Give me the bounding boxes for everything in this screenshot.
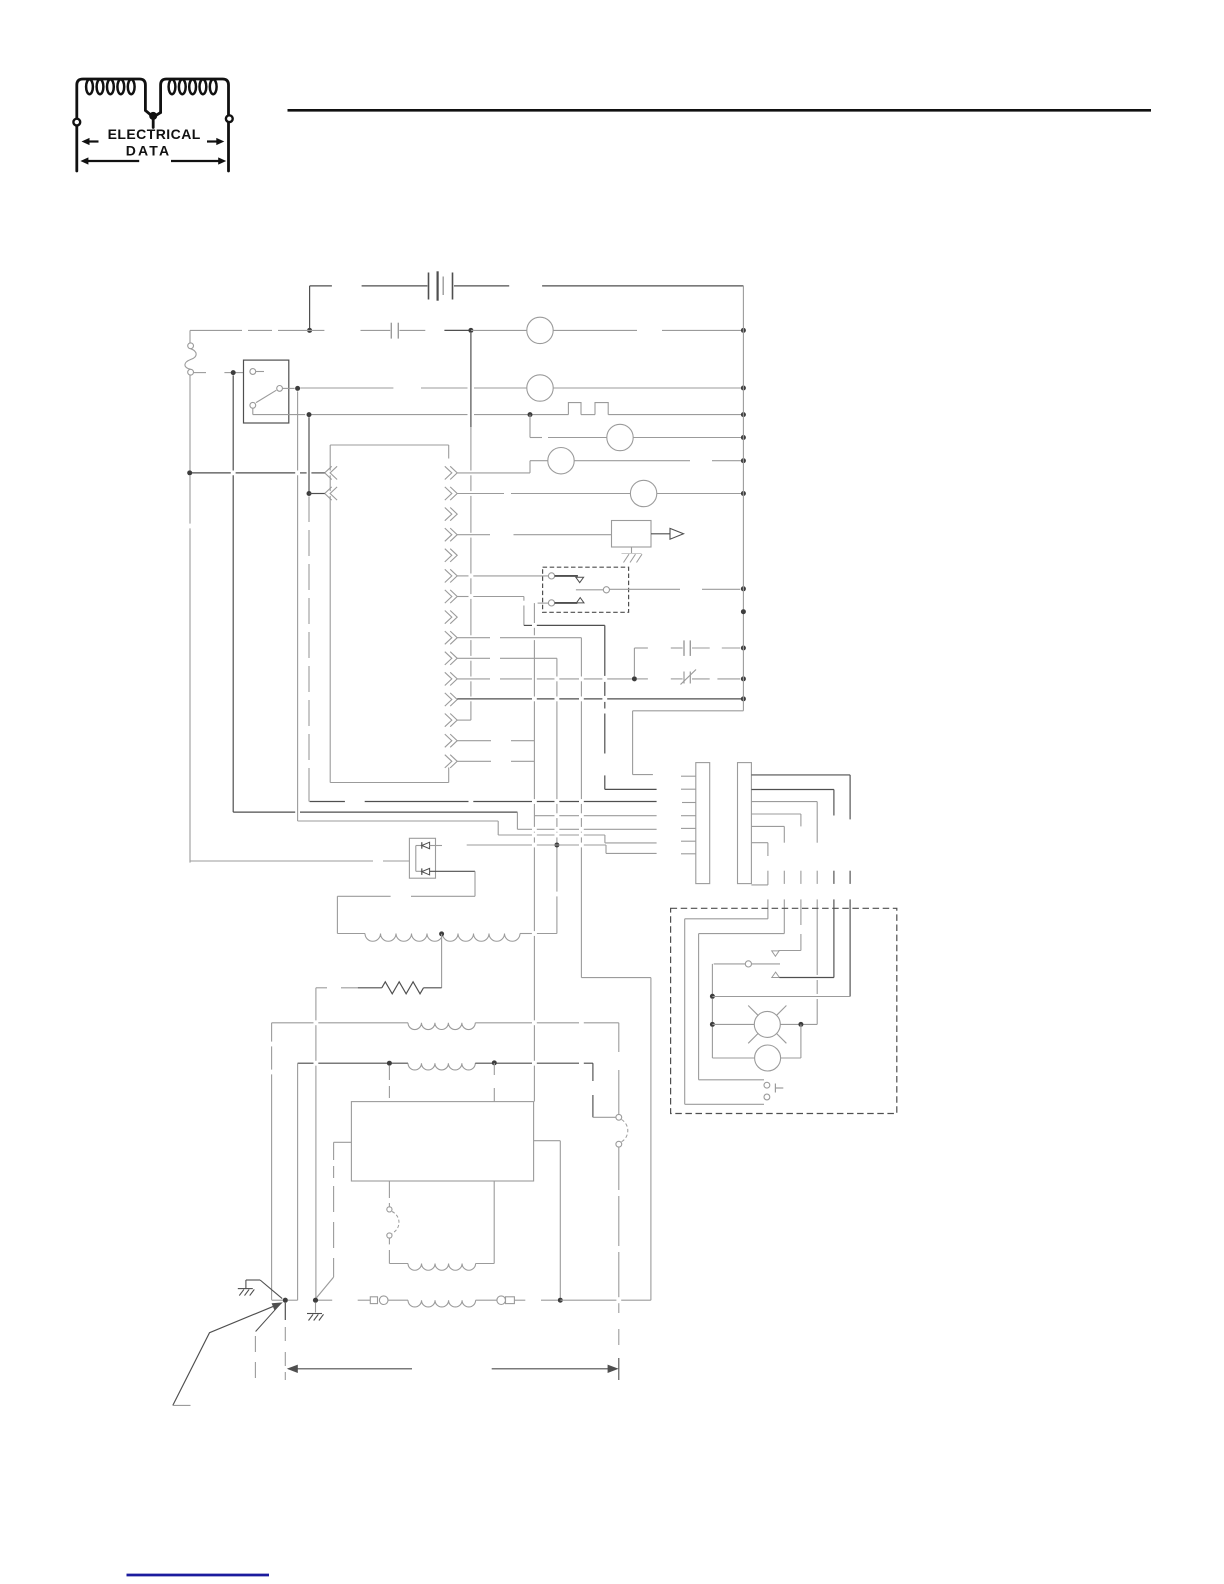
wire V x309 down [308,417,310,491]
pin chevron right y514 [445,508,452,521]
wire x298 lower [297,1063,299,1300]
contact K3 bottom [387,1233,392,1238]
stub815 [681,815,696,817]
leader B ext [254,1336,256,1352]
plug P1 square [370,1297,377,1304]
node bus row700 [741,696,746,701]
wire left drop to fuse [189,330,191,343]
connector J1 right bar [738,763,752,884]
regulator VR1 box [409,838,435,878]
ground GND2 lead [315,1303,317,1313]
wire K3 down [388,1238,390,1244]
coil exciter [337,933,365,935]
node starter right [798,1022,803,1027]
logo generator winding symbol [77,79,229,171]
switch common [603,587,609,593]
wire row1300 right [514,1299,525,1301]
wire row437 right [633,437,741,439]
cap hook [633,648,635,676]
pin chevron left y472 [325,466,332,479]
wire dot1 left [272,1299,283,1301]
wire s2 [751,789,834,791]
node battery/row330 junction [307,328,312,333]
pin chevron right y678 [445,672,452,685]
wire row493 to bus [657,493,741,495]
stub828 [681,827,696,829]
wire row534 solenoid [457,534,490,536]
wire row330 to lamp [471,329,527,331]
wire drop to row330 [309,286,311,331]
wire dot1 drop [284,1303,286,1320]
switch tri down [576,577,584,582]
leader A foot [173,1404,191,1406]
node relay out lower [307,412,312,417]
logo center-tap node [149,112,157,120]
pin chevron right y493 [445,487,452,500]
wire row437 [530,437,542,439]
battery B1 [428,273,430,300]
controller U1 box [330,444,449,446]
wire reg toprow 845 [467,844,532,846]
wire row460 [530,460,548,462]
contact K3 top [387,1207,392,1212]
wire row330 mid [444,329,471,331]
capacitor C2 [683,640,685,656]
wire row720 stub [457,719,471,721]
stub841 [681,840,696,842]
pin chevron right y534 [445,528,452,541]
node bus row588 [741,586,746,591]
solenoid arrow [651,533,670,535]
wire row493 left [309,493,325,495]
stub802 [682,802,696,804]
wire reg bottom lead [430,870,475,872]
wire row761 stub [457,760,491,762]
ground GND1 [238,1288,253,1290]
starter brushes [748,1006,758,1016]
contact tri up2 [772,972,780,977]
wire x713 vertical [711,964,713,994]
wire row472 left [190,472,231,474]
wire switch common to bus [610,588,681,590]
wire dot1 right [288,1299,298,1301]
coil stator2 [408,1063,475,1070]
wire x190 to regulator [190,860,373,862]
coil stator1 [408,1023,475,1030]
relay B lead [283,387,295,389]
dimension line [288,1368,412,1370]
wire row330 left [190,329,242,331]
solenoid SOL1 box [612,521,652,548]
wire row648 to bus [722,647,741,649]
wire rowB 821 [298,820,499,822]
node row1300 x560 [558,1298,563,1303]
node bus row330 [741,328,746,333]
stub789 [681,788,696,790]
node row1063 x389 [387,1061,392,1066]
logo small dimension arrows [86,140,99,142]
node bus row611 [741,609,746,614]
connector J1 left bar [696,763,710,884]
wire row789 [605,788,657,790]
wire x604 vertical [604,625,606,676]
wire switch bottom lead [538,602,549,604]
wire x534 vertical [533,603,535,623]
wire resistor left [316,987,327,989]
wire row330 right [553,329,637,331]
wire reg step [605,845,607,853]
wire x389 below box [388,1181,390,1198]
pin chevron right y740 [445,734,452,747]
logo right terminal [226,115,233,122]
relay C lead [252,408,254,414]
wire row1022 right [475,1022,532,1024]
wire exciter left [336,896,338,933]
pin chevron right y555 [445,549,452,562]
switch S2 actuator [774,1084,776,1093]
svg-text:DATA: DATA [126,143,172,159]
lamp L1 [527,317,553,343]
wire jog 414-437 [529,415,531,438]
coil field1 [389,1263,408,1265]
node coil tap [439,931,444,936]
NC contact [637,678,648,680]
wire M2 right up [800,1024,802,1058]
contact K2 bottom [616,1141,622,1147]
fuse F1 [188,343,194,349]
plug P1 pin [379,1296,388,1305]
wire rowA 812 [233,811,295,813]
pin chevron right y720 [445,714,452,727]
wire row625 [524,624,532,626]
regulator inner bracket [415,846,417,872]
wire loop2 [699,933,785,935]
wire rowC 801 [310,801,345,803]
relay contact A [250,369,256,375]
wire V x233 down [232,375,234,470]
solenoid vent hatch [631,547,633,553]
leader B [256,1304,280,1331]
node row414 x530 [528,412,533,417]
wire row1063 left [298,1062,314,1064]
wire x651 vertical [650,978,652,1301]
relay contact B [277,386,283,392]
wire starter row [712,1023,754,1025]
pressure switch dashed box [543,567,629,612]
generator G1 box [351,1102,533,1181]
relay contact C [250,402,256,408]
relay K1 box [244,360,289,423]
node row330 x471 [468,328,473,333]
ground GND2 [307,1313,322,1315]
wire row472 right [457,472,530,474]
wire row678 [457,678,490,680]
wire x471 vertical [470,333,472,427]
generator brush notch [333,1142,335,1160]
wire row1063 right [475,1062,532,1064]
lamp L4 [548,448,574,474]
lamp L3 [607,424,633,450]
pin chevron right y637 [445,631,452,644]
wire row977 [581,977,651,979]
node bus row648 [741,646,746,651]
diode D1 [421,842,423,849]
node bus row437 [741,435,746,440]
stub853 [681,853,696,855]
logo coil loops left+right [86,79,93,94]
wire x619 upper [618,1023,620,1052]
diode D2 [421,868,423,875]
wire jog 460-472 [529,461,531,473]
wire fuse stub [194,372,206,374]
node x713 y996 [710,994,715,999]
switch contact top [548,573,554,579]
wire jog596 [523,597,525,601]
wire nabla drop [779,950,801,952]
node bus row460 [741,458,746,463]
wire x190 vertical [189,375,191,470]
wire row493 right [457,493,504,495]
wire row1300 to x651 [560,1299,616,1301]
node x557 y845 [554,843,559,848]
dim left ext [284,1327,286,1341]
lamp L2 [527,375,553,401]
node x713 y1024 [710,1022,715,1027]
wire x557 vertical [556,658,558,676]
breaker bumps [568,403,608,415]
wire row658 [457,657,490,659]
wire row596 [457,596,468,598]
contact K3 arc [392,1212,399,1234]
plug P2 square [506,1297,515,1304]
pin chevron right y658 [445,652,452,665]
pin chevron right y617 [445,611,452,624]
lamp L5 [630,480,656,506]
bus bottom loop [633,710,744,712]
wire x494 to box [493,1063,495,1075]
wire loop2 bottom [699,1079,764,1081]
contact K2 arc [622,1120,628,1142]
node bus row414 [741,412,746,417]
switch S2 upper [764,1082,770,1088]
coil field2 [408,1300,476,1307]
wire fuse to relay [224,372,230,374]
node row678 x634 [632,676,637,681]
wire row460 right [574,460,690,462]
wire rowB step [497,821,499,835]
wire x271 vertical [271,1023,273,1042]
switch S2 lower [764,1094,770,1100]
relay common K4 [745,961,751,967]
wire tap down [441,934,443,988]
wire x619 lower [618,1147,620,1190]
wire row388 right [553,387,741,389]
wire rowA step [516,812,518,829]
pin chevron right y575 [445,569,452,582]
wire loop1 bottom [685,1103,764,1105]
capacitor C1 [390,323,392,339]
wire V x297 down [297,391,299,470]
header rule [288,109,1152,112]
logo long dimension arrows [85,160,139,162]
pin chevron right y761 [445,755,452,768]
wire s4 [751,813,801,815]
wire x316 vertical [315,988,317,1021]
wire row740 stub [457,740,491,742]
wire row575 to switch [457,575,468,577]
svg-text:ELECTRICAL: ELECTRICAL [108,126,201,142]
wire row1022 left [272,1022,314,1024]
wire x333 diagonal [317,1277,334,1298]
starter M1 [754,1011,780,1037]
node x190 row472 [187,470,192,475]
wire starter right [780,1023,817,1025]
pin chevron left y493 [325,487,332,500]
switch contact bottom [548,600,554,606]
bus vertical [742,286,744,711]
wire box to x560 [534,1140,561,1142]
pin chevron right y472 [445,466,452,479]
wire row414 to bus [608,414,741,416]
node bus row388 [741,386,746,391]
footer rule [127,1574,270,1577]
logo text ELECTRICAL DATA [108,126,201,159]
resistor R1 [382,982,424,994]
leader A [173,1306,274,1405]
pin chevron right y699 [445,693,452,706]
wire row637 [457,637,490,639]
wire row1117 [593,1116,616,1118]
wire row700 [457,698,532,700]
stub815 wire [534,815,554,817]
pin chevron right y596 [445,590,452,603]
stub776 [681,775,696,777]
node ground2 [313,1298,318,1303]
node relay out mid [295,386,300,391]
dim right ext [618,1358,620,1380]
wire row1300 dot2 stub [316,1299,332,1301]
wire row996 [712,996,850,998]
node bus row493 [741,491,746,496]
wire s1 [751,774,850,776]
contact tri down2 [772,951,779,956]
wire loop1 [685,918,768,920]
switch tri up [576,598,584,603]
wire x389 through box [388,1066,390,1080]
node relay out row494 [307,491,312,496]
wire coil1 up right [493,1181,495,1263]
contact K2 top [616,1114,622,1120]
logo left terminal [73,119,80,126]
wire x333 lower [333,1186,335,1212]
node relay input [231,370,236,375]
wire exciter top [337,895,390,897]
wire s6 [751,842,768,844]
wire s3 [751,801,817,803]
wire x581 vertical [580,638,582,677]
wire row414b [533,414,569,416]
node ground main [283,1298,288,1303]
node bus row678 [741,676,746,681]
node row1063 x494 [492,1060,497,1065]
wire row414 [312,414,468,416]
plug P2 pin [476,1299,497,1301]
relay blade [256,390,276,402]
wire battery top row [310,285,332,287]
motor M2 row [712,1057,754,1059]
wire s5 [751,825,784,827]
wire row388 [300,387,393,389]
engine dashed box [671,908,897,1113]
wire delta row [779,977,834,979]
wire x592 down [592,1063,594,1081]
